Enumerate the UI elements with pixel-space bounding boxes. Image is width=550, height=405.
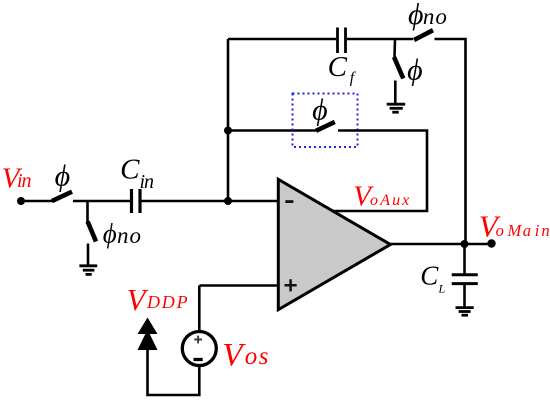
svg-text:ϕ: ϕ [407, 53, 423, 86]
dotted box around phi switch [293, 94, 358, 148]
wire switch to ground stem [394, 81, 397, 105]
wire output [390, 243, 491, 246]
capacitor CL [452, 275, 478, 284]
wire CL to ground [463, 284, 466, 307]
voltage source Vos [182, 332, 216, 366]
node junction middle feedback [224, 127, 232, 135]
wire plus input down to Vos [198, 286, 201, 332]
svg-text:f: f [350, 70, 357, 87]
svg-text:o: o [496, 221, 504, 240]
svg-text:V: V [222, 337, 246, 373]
wire switch to Cin [73, 200, 131, 203]
switch phi_no (input shunt, blade) [88, 222, 96, 242]
label phi (aux feedback switch) [312, 93, 328, 126]
label phi (input switch) [55, 159, 71, 192]
wire junction drop to phi switch [393, 39, 396, 57]
svg-text:in: in [535, 221, 550, 240]
wire plus input [200, 284, 279, 287]
label phi_no (feedback switch) [408, 0, 448, 31]
svg-text:L: L [438, 282, 446, 296]
wire Vos bottom loop to VDDP [148, 349, 200, 395]
wire left vertical (summing node) [227, 39, 230, 201]
ground (top) [387, 104, 406, 112]
wire output to CL [463, 244, 466, 274]
label Vin [2, 162, 32, 194]
svg-text:in: in [140, 171, 155, 193]
wire Cf to phi_no switch [347, 38, 413, 41]
pin minus [285, 200, 293, 203]
svg-text:in: in [17, 170, 32, 192]
svg-text:ϕ: ϕ [312, 93, 328, 126]
node junction summing [224, 197, 232, 205]
wire Cin to op-amp minus input [142, 200, 279, 203]
label phi_no (input shunt switch) [103, 218, 142, 248]
node junction output [461, 240, 469, 248]
svg-text:DDP: DDP [146, 292, 189, 312]
switch phi_no (feedback, open blade) [414, 30, 433, 40]
ground (CL) [456, 308, 474, 316]
svg-text:C: C [420, 261, 439, 291]
svg-text:Ma: Ma [507, 221, 533, 240]
svg-text:ϕ: ϕ [103, 218, 117, 248]
svg-text:C: C [120, 154, 140, 186]
capacitor Cin [132, 189, 141, 213]
switch phi (aux feedback, blade) [316, 122, 335, 131]
wire Vin to phi switch [21, 200, 55, 203]
wire phi_no switch to right corner and down to output [435, 39, 466, 244]
node VoMain terminal [487, 239, 495, 247]
svg-text:os: os [245, 343, 270, 370]
label CL [420, 261, 445, 296]
label VDDP [127, 282, 190, 317]
wire shunt switch to ground [87, 244, 90, 266]
svg-text:no: no [423, 4, 448, 29]
svg-text:ϕ: ϕ [408, 0, 424, 31]
label VoMain [479, 208, 550, 243]
wire input shunt branch [86, 201, 89, 222]
svg-text:C: C [328, 51, 348, 83]
ground (input shunt) [79, 266, 97, 275]
wire top feedback left segment [228, 38, 336, 41]
svg-text:o: o [370, 192, 378, 209]
op-amp U1 [278, 179, 390, 309]
svg-text:ϕ: ϕ [55, 159, 71, 192]
wire middle feedback to phi switch [228, 129, 316, 132]
label phi (ground switch) [407, 53, 423, 86]
node Vin terminal [17, 197, 25, 205]
label Cin [120, 154, 154, 194]
svg-text:V: V [127, 282, 149, 317]
label Vos [222, 337, 270, 373]
label VoAux [353, 181, 411, 213]
label Cf [328, 51, 357, 86]
capacitor Cf [338, 28, 346, 54]
supply VDDP arrow [138, 318, 158, 351]
pin plus [285, 279, 297, 291]
wire aux feedback right segment down to VoAux tap [333, 131, 427, 212]
switch phi (to ground, blade) [394, 57, 403, 79]
svg-text:no: no [117, 223, 142, 248]
switch phi (input, blade) [52, 192, 72, 201]
svg-text:Aux: Aux [379, 192, 411, 209]
